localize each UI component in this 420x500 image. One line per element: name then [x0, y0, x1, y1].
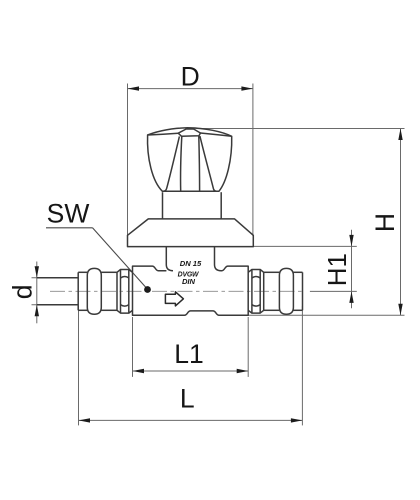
dimension L1 arrow left — [133, 369, 145, 373]
right coupling cylinder top edge — [264, 271, 280, 273]
valve body outline — [133, 266, 249, 315]
right press bead — [279, 268, 293, 314]
left hex nut chamfer arc bottom — [121, 305, 129, 307]
handle knob right lobe inner edge — [200, 136, 217, 191]
dimension L1 extension line left — [132, 317, 134, 377]
dimension d arrow bottom (pointing up) — [35, 305, 39, 317]
svg-text:DN 15: DN 15 — [180, 259, 202, 268]
dimension L1 line — [133, 370, 249, 372]
bonnet neck left wall — [166, 247, 173, 271]
dimension H arrow top — [398, 129, 402, 141]
left press bead — [87, 268, 101, 314]
dimension H bottom extension line — [248, 314, 404, 316]
right press sleeve end face — [302, 272, 304, 310]
right coupling cylinder bottom edge — [264, 309, 280, 311]
handle knob left lobe inner edge — [163, 136, 179, 191]
handle knob outer silhouette — [148, 128, 232, 192]
dimension d extension line bottom — [32, 304, 79, 306]
SW leader underline — [46, 227, 93, 229]
right hex nut outline — [248, 270, 264, 314]
left hex nut outline — [117, 270, 133, 314]
dimension D arrow left — [128, 86, 140, 90]
dimension D line — [128, 88, 253, 90]
svg-text:d: d — [7, 285, 37, 300]
left press sleeve top edge — [78, 271, 87, 273]
centerline — [50, 290, 302, 292]
dimension H1 line upper tail — [351, 230, 353, 247]
left hex nut facet line 1 — [120, 270, 122, 314]
left hex nut chamfer arc top — [121, 277, 129, 279]
right hex nut facet line 2 — [259, 270, 261, 314]
left pipe stub top edge — [37, 277, 78, 279]
dimension L1 extension line right — [247, 317, 249, 377]
right hex nut facet line 1 — [251, 270, 253, 314]
handle knob facet line left — [148, 133, 179, 135]
dimension L arrow right — [291, 418, 303, 422]
dimension H1 arrow bottom (pointing up) — [349, 291, 353, 303]
right press sleeve bottom edge — [293, 309, 302, 311]
dimension H top extension line — [200, 128, 405, 130]
dimension H1 arrow top (pointing down) — [349, 235, 353, 247]
SW leader dot — [144, 286, 151, 293]
dimension H1 line middle — [351, 246, 353, 291]
left coupling cylinder top edge — [101, 271, 117, 273]
handle knob top face — [178, 129, 200, 136]
dimension d arrow top (pointing down) — [35, 266, 39, 278]
dimension L line — [79, 419, 303, 421]
right press sleeve top edge — [293, 271, 302, 273]
dimension d extension line top — [32, 277, 79, 279]
dimension L1 arrow right — [237, 369, 249, 373]
svg-text:H: H — [370, 213, 400, 232]
handle knob center column right edge — [198, 136, 201, 191]
bonnet flange — [128, 219, 254, 247]
dimension D arrow right — [241, 86, 253, 90]
left hex nut facet line 2 — [128, 270, 130, 314]
svg-text:SW: SW — [47, 199, 90, 229]
svg-text:H1: H1 — [322, 253, 352, 286]
left press sleeve bottom edge — [78, 309, 87, 311]
dimension H1 bottom extension line — [310, 290, 357, 292]
right hex nut chamfer arc top — [252, 277, 260, 279]
flow direction arrow on body — [165, 292, 183, 306]
left press sleeve end face — [77, 272, 79, 310]
left pipe stub bottom edge — [37, 304, 78, 306]
left coupling cylinder bottom edge — [101, 309, 117, 311]
dimension D extension line left — [127, 84, 129, 237]
dimension L arrow left — [79, 418, 91, 422]
svg-text:L: L — [180, 384, 195, 414]
svg-text:L1: L1 — [174, 339, 203, 369]
dimension D extension line right — [252, 84, 254, 237]
dimension L extension line left — [78, 306, 80, 425]
SW leader diagonal — [93, 228, 148, 289]
stem neck right wall — [220, 192, 222, 219]
handle knob center column left edge — [181, 136, 182, 191]
handle knob facet line right — [200, 133, 231, 136]
dimension H1 top extension line — [253, 245, 356, 247]
stem neck left wall — [162, 192, 164, 219]
dimension H arrow bottom — [398, 304, 402, 316]
dimension H line — [400, 129, 402, 316]
bonnet neck right wall — [215, 247, 222, 271]
svg-text:DIN: DIN — [182, 277, 196, 286]
dimension L extension line right — [301, 306, 303, 425]
dimension d line vertical — [36, 262, 38, 324]
dimension H1 line lower tail — [351, 291, 353, 308]
svg-text:D: D — [181, 61, 200, 91]
right hex nut chamfer arc bottom — [252, 305, 260, 307]
